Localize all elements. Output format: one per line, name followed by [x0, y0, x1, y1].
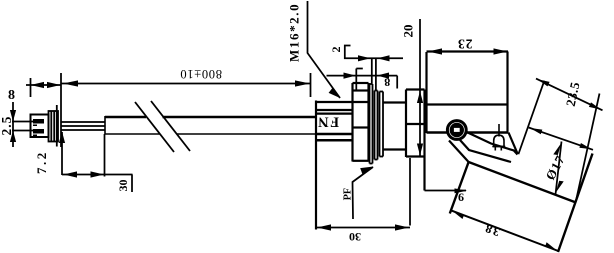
dimension 800±10: [61, 67, 311, 97]
label PF with leader: [343, 167, 374, 220]
washer 2: [375, 91, 378, 160]
cable tube: [105, 116, 315, 119]
gland collar: [353, 83, 369, 162]
tube-end extension line: [104, 134, 106, 177]
gland nut: [316, 101, 369, 230]
mounting plate: [406, 90, 425, 191]
hinge pin: [447, 121, 466, 140]
dimension 8 (connector length): [8, 78, 61, 103]
threaded cylinder: [383, 103, 406, 150]
float body: [450, 154, 593, 253]
svg-text:9: 9: [458, 191, 464, 205]
svg-text:FN: FN: [317, 114, 339, 130]
svg-text:M16*2.0: M16*2.0: [287, 3, 302, 62]
step ring: [380, 92, 384, 157]
label M16*2.0 with leader: [287, 1, 341, 98]
dimension 30 (left): [62, 171, 133, 192]
connector rear block: [49, 105, 59, 147]
connector pins: [33, 119, 44, 124]
dimension 30 (bottom): [316, 158, 410, 244]
svg-text:20: 20: [401, 25, 416, 38]
svg-text:800±10: 800±10: [180, 67, 222, 81]
connector housing: [31, 115, 49, 138]
dimension 23 (on body top edge): [428, 36, 508, 54]
svg-text:2: 2: [329, 47, 343, 53]
svg-text:8: 8: [8, 88, 15, 103]
washer flange (2mm): [370, 84, 373, 164]
dimension 6 leader (pivot offset): [425, 188, 468, 204]
dimension 2 (flange thickness): [329, 46, 403, 91]
svg-text:7.2: 7.2: [34, 150, 49, 174]
svg-text:30: 30: [349, 230, 361, 244]
dimension 8 (thread length): [327, 69, 398, 91]
svg-text:2.5: 2.5: [0, 116, 14, 136]
body rectangle: [427, 52, 509, 134]
svg-text:PF: PF: [343, 188, 354, 200]
shared extension line (8-dim / 800-dim left tick): [60, 73, 62, 147]
dimension 38 (on float bottom edge): [451, 210, 559, 251]
float arm: [449, 132, 518, 163]
svg-text:23: 23: [457, 36, 473, 51]
svg-text:8: 8: [384, 76, 390, 90]
dimension Ø17: [529, 128, 593, 195]
dimension 2.5 (pin pitch): [0, 102, 33, 147]
svg-text:30: 30: [116, 180, 130, 192]
cable break marks: [135, 101, 190, 152]
wires: [61, 122, 105, 130]
dimension 23.5: [518, 79, 602, 203]
dimension 20: [401, 19, 424, 156]
dimension 7.2: [34, 132, 65, 176]
D mark (pivot detail): [492, 124, 505, 151]
